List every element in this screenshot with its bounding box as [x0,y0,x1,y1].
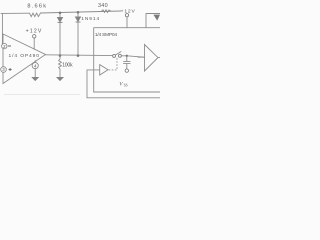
resistor R2 340 zigzag [102,10,111,13]
corner frame top-right [146,14,160,28]
diode D2 wire [77,12,79,55]
pin 4 stub [34,61,36,78]
pin 3 circle [1,67,7,73]
diode D2 symbol [76,17,81,22]
diode D1 wire [59,13,61,56]
SMP04 box [94,28,160,92]
capacitor C1 stubs [126,56,128,69]
svg-text:1N914: 1N914 [81,16,99,22]
pin 2 circle [2,43,7,48]
svg-text:1/4 SMP04: 1/4 SMP04 [95,32,117,38]
corner frame filled triangle [153,15,160,21]
switch S1 pole circle [113,54,116,57]
resistor R3 100k zigzag [59,56,62,77]
buffer A3 triangle [145,45,159,72]
svg-text:340: 340 [98,3,108,9]
svg-text:100k: 100k [62,63,73,69]
plus sign [9,68,12,71]
switch S1 throw circle [118,54,121,57]
diode D1 symbol [58,17,63,22]
ghost wire [4,94,80,96]
+12V right terminal circle [125,14,128,17]
capacitor C1 plates [124,62,131,64]
op-amp output wire [46,54,113,57]
dashed control line [109,57,117,70]
svg-text:1/4 OP490: 1/4 OP490 [9,53,40,59]
op-amp U1 triangle [3,34,46,84]
switch S1 arm [115,52,121,56]
svg-text:SS: SS [124,84,128,88]
op-amp U1 power stub [33,38,35,49]
svg-text:+12V: +12V [121,9,136,15]
op-amp +12V terminal circle [33,35,36,38]
minus sign [8,45,11,47]
+12V right terminal wire into box [126,17,128,28]
svg-text:8.66k: 8.66k [27,3,46,9]
wire top rail [1,11,121,13]
wire op-amp output into box [138,56,145,58]
ground under 100k [57,77,63,80]
buffer A3 output stub [158,57,160,59]
wire feedback to inverting input [1,13,3,43]
control bottom wire [87,97,160,99]
control buffer A2 triangle [100,65,108,75]
pin 4 circle [32,63,38,69]
wire switch to cap node to buffer A3 [122,56,145,57]
ground under pin 4 [32,77,38,80]
resistor R1 8.66k zigzag [30,13,41,17]
capacitor C1 terminal circle [125,69,128,72]
control input wire [87,70,100,98]
junction dots [59,11,128,57]
svg-text:+12V: +12V [26,28,42,34]
